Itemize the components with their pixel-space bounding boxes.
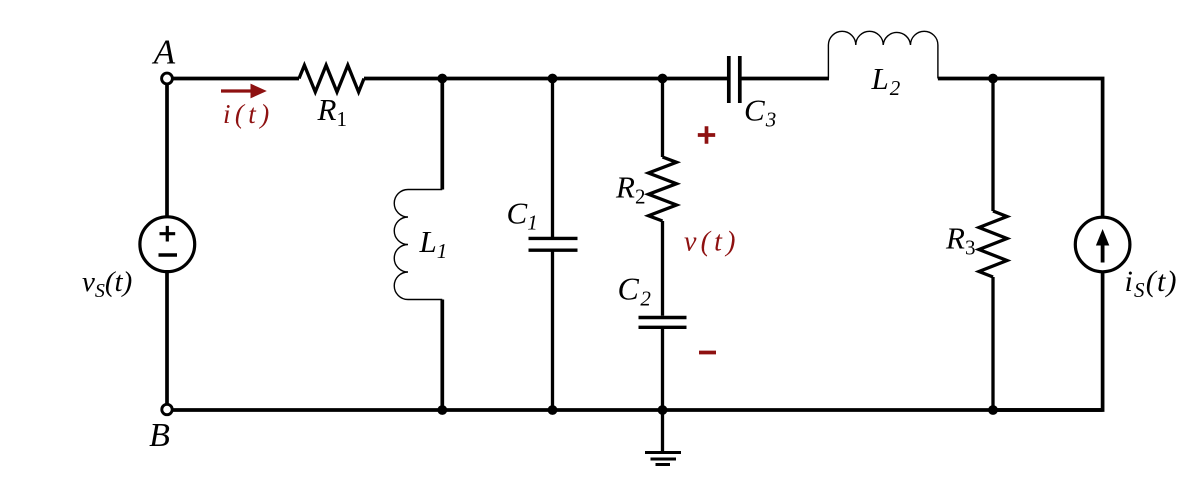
svg-text:R2: R2 — [615, 170, 645, 209]
node B — [149, 404, 172, 454]
svg-text:i(t): i(t) — [223, 99, 274, 129]
wire: C2 down to bottom junction — [661, 327, 664, 410]
wire top right: L2 to corner and down to current source — [938, 79, 1103, 218]
svg-text:L1: L1 — [419, 224, 448, 263]
wire left: voltage source down to node B — [165, 272, 169, 405]
wire: top junction down to R2 — [661, 79, 664, 158]
wire top: node A to R1 — [173, 77, 299, 81]
wire: top junction down to R3 — [991, 79, 994, 212]
junction dot bottom R2 branch — [658, 405, 668, 415]
wire: top junction down to C1 — [551, 79, 554, 239]
wire: top junction down to L1 — [440, 79, 444, 190]
capacitor C2 — [639, 318, 687, 328]
ground — [645, 453, 681, 465]
label v(t) — [684, 227, 740, 258]
svg-text:iS(t): iS(t) — [1125, 265, 1178, 302]
junction dot top C1 — [548, 74, 558, 84]
svg-text:C2: C2 — [618, 271, 653, 311]
wire top: R1 to C3 — [364, 77, 727, 81]
svg-text:C3: C3 — [744, 93, 777, 132]
junction dot top R2 — [658, 74, 668, 84]
resistor R2 — [649, 157, 677, 221]
inductor L1 — [394, 190, 442, 300]
label R1 — [317, 92, 347, 131]
resistor R3 — [979, 211, 1007, 277]
label C1 — [507, 196, 538, 235]
label L1 — [419, 224, 448, 263]
label iS(t) — [1125, 265, 1178, 302]
label C3 — [744, 93, 777, 132]
label i(t) — [223, 99, 274, 129]
resistor R1 — [299, 65, 364, 92]
label L2 — [871, 61, 902, 100]
junction dot top L1 — [437, 74, 447, 84]
junction dot bottom L1 — [437, 405, 447, 415]
svg-text:A: A — [152, 33, 176, 72]
capacitor C1 — [529, 238, 578, 250]
wire right: current source to bottom corner — [993, 272, 1103, 410]
wire bottom: node B to right corner — [173, 408, 1103, 412]
label R3 — [945, 221, 975, 260]
minus sign red — [699, 351, 716, 355]
wire: R2 down to C2 — [661, 221, 664, 316]
svg-text:C1: C1 — [507, 196, 538, 235]
svg-text:B: B — [149, 417, 170, 454]
current source IS — [1075, 217, 1130, 272]
label R2 — [615, 170, 645, 209]
junction dot bottom R3 — [988, 405, 998, 415]
label vS(t) — [82, 266, 132, 302]
label C2 — [618, 271, 653, 311]
voltage source VS — [140, 217, 195, 272]
svg-text:vS(t): vS(t) — [82, 266, 132, 302]
wire top: C3 to L2 — [742, 77, 830, 81]
svg-text:v(t): v(t) — [684, 227, 740, 258]
capacitor C3 — [729, 56, 740, 103]
svg-text:L2: L2 — [871, 61, 902, 100]
wire left: node A down to voltage source — [165, 84, 169, 217]
plus sign red — [698, 126, 715, 143]
svg-text:R1: R1 — [317, 92, 347, 131]
wire: C1 down to bottom junction — [551, 250, 554, 410]
svg-text:R3: R3 — [945, 221, 975, 260]
node A — [152, 33, 176, 84]
wire: L1 down to bottom junction — [440, 300, 444, 411]
current arrow i(t) — [221, 84, 267, 99]
junction dot bottom C1 — [548, 405, 558, 415]
junction dot top R3 — [988, 74, 998, 84]
wire: ground stub — [661, 410, 664, 453]
wire: R3 down to bottom junction — [991, 277, 994, 410]
inductor L2 — [828, 31, 938, 78]
